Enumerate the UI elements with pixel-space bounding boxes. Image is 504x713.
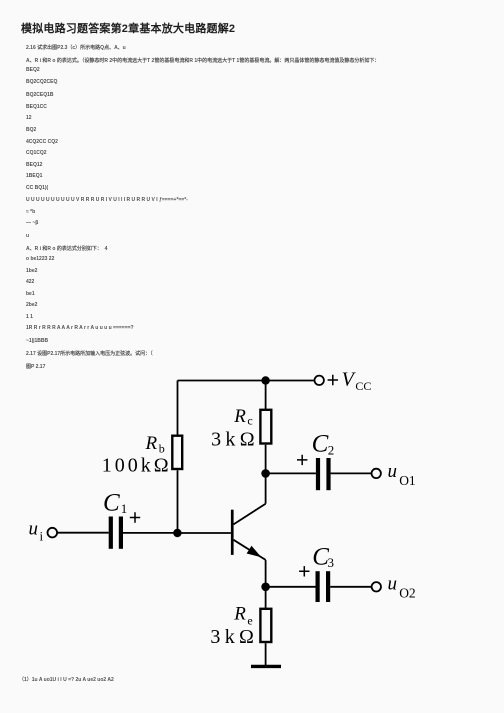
wire collector node to C2: [266, 472, 316, 474]
svg-text:R: R: [145, 433, 158, 454]
wire input terminal to C1: [57, 532, 109, 534]
label C1: [103, 490, 127, 517]
svg-text:O1: O1: [399, 473, 416, 488]
label uO2: [388, 573, 416, 600]
svg-text:C: C: [312, 430, 329, 457]
wire Re to ground: [265, 643, 267, 665]
wire Rb branch top: [177, 381, 179, 436]
svg-text:c: c: [247, 414, 252, 428]
terminal output uO1: [372, 469, 381, 478]
node VCC rail junction: [261, 376, 269, 384]
svg-text:3: 3: [328, 555, 335, 570]
label ui: [29, 519, 44, 544]
node emitter junction: [261, 583, 270, 592]
svg-text:1: 1: [121, 501, 128, 516]
node collector junction: [261, 469, 270, 478]
svg-text:R: R: [233, 604, 246, 625]
wire emitter vertical: [265, 560, 267, 587]
svg-text:u: u: [29, 519, 39, 540]
svg-text:C: C: [103, 490, 120, 517]
wire C1 to base node: [123, 532, 177, 534]
wire base node to transistor: [177, 532, 231, 534]
capacitor C3: [316, 571, 331, 602]
label Rc: [233, 406, 252, 428]
label Re: [233, 604, 252, 628]
svg-text:O2: O2: [399, 585, 416, 600]
label C3: [312, 543, 334, 570]
svg-text:3kΩ: 3kΩ: [211, 428, 259, 450]
svg-text:100kΩ: 100kΩ: [102, 454, 172, 476]
resistor Rc: [260, 410, 271, 444]
node base junction: [173, 529, 181, 537]
transistor Q1 emitter arrow: [247, 546, 262, 558]
svg-text:CC: CC: [355, 379, 371, 393]
wire emitter node to Re: [265, 587, 267, 609]
label C1 plus: [130, 512, 140, 522]
svg-text:u: u: [388, 461, 398, 482]
wire top rail: [178, 380, 315, 382]
wire C3 to uO2 terminal: [330, 586, 372, 588]
svg-text:R: R: [233, 406, 246, 427]
wire collector vertical to transistor: [265, 473, 267, 503]
wire emitter node to C3: [266, 586, 316, 588]
label C3 plus: [299, 566, 309, 576]
terminal output uO2: [372, 582, 381, 591]
transistor Q1 emitter lead: [234, 540, 266, 560]
capacitor C1: [109, 517, 123, 549]
wire C2 to uO1 terminal: [331, 472, 372, 474]
svg-text:3kΩ: 3kΩ: [210, 626, 258, 648]
capacitor C2: [316, 458, 331, 490]
ground: [251, 665, 281, 668]
label +VCC: [328, 369, 372, 393]
svg-text:V: V: [342, 369, 357, 391]
label uO1: [388, 461, 416, 488]
terminal input ui: [48, 528, 58, 538]
svg-text:2: 2: [328, 443, 335, 458]
label C2: [312, 430, 335, 457]
transistor Q1 collector lead: [234, 504, 266, 525]
svg-text:u: u: [388, 573, 398, 594]
wire Rc to collector node: [265, 445, 267, 474]
wire Rb to base node: [177, 470, 179, 533]
svg-text:i: i: [40, 529, 44, 544]
label Rb: [145, 433, 165, 456]
resistor Re: [260, 609, 271, 642]
label C2 plus: [297, 455, 307, 465]
svg-text:b: b: [159, 441, 165, 455]
resistor Rb: [172, 436, 182, 469]
terminal VCC: [315, 376, 324, 385]
transistor Q1 base bar: [231, 510, 234, 555]
wire Rc branch top: [265, 381, 267, 410]
